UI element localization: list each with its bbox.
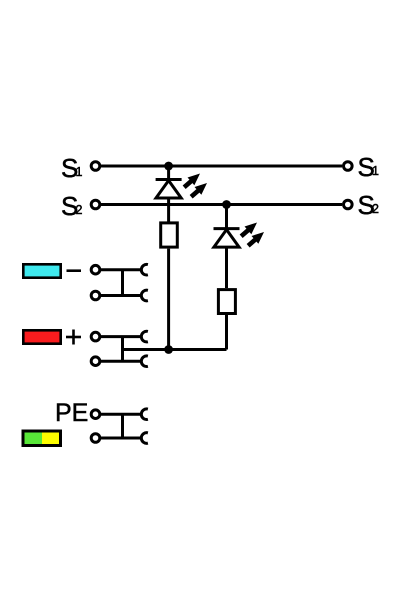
junction node plus bus [164, 345, 173, 354]
bridge PE group [121, 414, 124, 438]
svg-text:1: 1 [76, 165, 83, 179]
contact socket PE lower [141, 433, 148, 444]
terminal circle plus lower [91, 357, 100, 366]
bridge plus group [121, 337, 124, 362]
svg-text:2: 2 [76, 203, 83, 217]
wire S2 junction down to LED2 [225, 205, 228, 230]
contact socket minus lower [141, 290, 148, 301]
wire minus upper [101, 268, 141, 271]
wire R2 down to bus [225, 315, 228, 350]
terminal circle S2 left [91, 200, 100, 209]
PE indicator (green/yellow) [23, 431, 61, 446]
minus indicator (cyan) [23, 264, 60, 277]
terminal circle PE upper [91, 410, 100, 419]
label S2 right [358, 190, 380, 220]
wire S1 [101, 165, 342, 168]
wire plus upper [101, 335, 141, 338]
wire S1 junction down to LED1 [167, 166, 170, 180]
wire PE upper [101, 413, 141, 416]
bridge minus group [121, 270, 124, 296]
terminal circle S2 right [344, 200, 353, 209]
wire S2 [101, 203, 342, 206]
wire R1 down to junction [167, 249, 170, 350]
terminal circle minus upper [91, 265, 100, 274]
wire PE lower [101, 437, 141, 440]
terminal circle S1 left [91, 162, 100, 171]
wire plus bus horizontal [123, 348, 227, 351]
LED D2 [214, 219, 268, 250]
junction node on S1 [164, 162, 173, 171]
plus indicator (red) [23, 330, 60, 343]
contact socket minus upper [141, 264, 148, 275]
contact socket plus lower [141, 356, 148, 367]
wire LED2 to R2 [225, 247, 228, 288]
label PE [55, 399, 88, 427]
label S1 left [61, 153, 83, 183]
terminal circle PE lower [91, 434, 100, 443]
LED D1 [156, 170, 211, 201]
wire LED1 to R1 [167, 198, 170, 222]
wire plus lower [101, 360, 141, 363]
contact socket PE upper [141, 409, 148, 420]
junction node on S2 [222, 200, 231, 209]
svg-text:2: 2 [372, 202, 379, 216]
label S1 right [358, 152, 380, 182]
svg-text:PE: PE [55, 399, 88, 427]
resistor R1 [161, 223, 178, 247]
minus sign [67, 269, 82, 272]
wire minus lower [101, 294, 141, 297]
terminal circle S1 right [344, 162, 353, 171]
svg-text:1: 1 [372, 164, 379, 178]
contact socket plus upper [141, 331, 148, 342]
plus sign [66, 330, 81, 345]
terminal circle plus upper [91, 332, 100, 341]
label S2 left [61, 191, 83, 221]
resistor R2 [218, 290, 235, 314]
terminal circle minus lower [91, 291, 100, 300]
